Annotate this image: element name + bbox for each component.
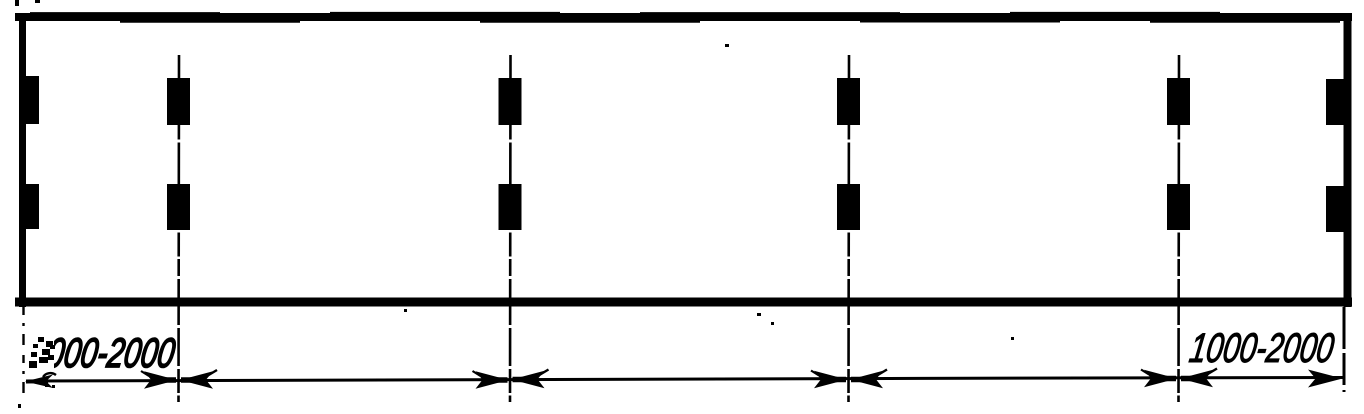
svg-text:1000-2000: 1000-2000 (1187, 325, 1338, 372)
